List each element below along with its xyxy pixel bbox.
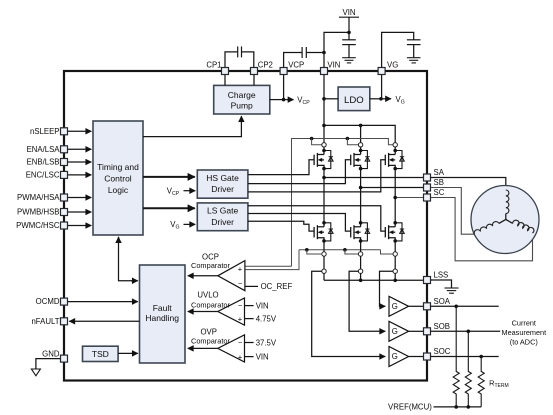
svg-text:+: + [238, 315, 243, 324]
svg-text:VG: VG [387, 60, 398, 69]
svg-text:37.5V: 37.5V [256, 338, 277, 347]
svg-text:VIN: VIN [256, 301, 269, 310]
svg-text:−: − [238, 301, 243, 310]
svg-text:+: + [238, 352, 243, 361]
svg-text:OCMD: OCMD [36, 297, 60, 306]
svg-text:LDO: LDO [344, 95, 364, 106]
svg-text:Current: Current [512, 318, 536, 327]
svg-text:PWMC/HSC: PWMC/HSC [16, 221, 60, 230]
svg-text:G: G [392, 302, 398, 311]
svg-text:PWMB/HSB: PWMB/HSB [17, 208, 59, 217]
svg-text:(to ADC): (to ADC) [510, 338, 538, 347]
svg-text:4.75V: 4.75V [256, 314, 277, 323]
svg-text:VCP: VCP [288, 60, 304, 69]
svg-text:UVLO: UVLO [197, 291, 218, 300]
svg-text:VIN: VIN [343, 8, 356, 17]
svg-text:+: + [238, 265, 243, 274]
svg-text:SOC: SOC [434, 347, 451, 356]
svg-text:SB: SB [434, 178, 444, 187]
svg-text:Fault: Fault [153, 303, 173, 313]
svg-text:G: G [392, 352, 398, 361]
svg-text:PWMA/HSA: PWMA/HSA [17, 193, 60, 202]
svg-text:OVP: OVP [200, 327, 216, 336]
svg-text:VIN: VIN [256, 352, 269, 361]
svg-text:ENC/LSC: ENC/LSC [26, 171, 60, 180]
svg-text:−: − [238, 338, 243, 347]
svg-text:Charge: Charge [228, 90, 256, 100]
svg-text:SC: SC [434, 188, 445, 197]
svg-text:CP2: CP2 [258, 60, 273, 69]
svg-text:Logic: Logic [108, 185, 129, 195]
svg-text:HS Gate: HS Gate [206, 173, 239, 183]
svg-text:VREF(MCU): VREF(MCU) [388, 403, 432, 412]
svg-text:Pump: Pump [231, 101, 253, 111]
svg-text:Comparator: Comparator [191, 301, 231, 310]
svg-text:SOB: SOB [434, 322, 450, 331]
svg-text:Comparator: Comparator [191, 261, 231, 270]
svg-text:Comparator: Comparator [191, 336, 231, 345]
svg-text:Driver: Driver [211, 184, 234, 194]
svg-text:SOA: SOA [434, 297, 451, 306]
svg-text:TSD: TSD [92, 349, 109, 359]
svg-text:LSS: LSS [434, 271, 449, 280]
svg-text:ENA/LSA: ENA/LSA [27, 145, 61, 154]
svg-text:OC_REF: OC_REF [261, 282, 293, 291]
svg-text:Control: Control [104, 174, 132, 184]
svg-text:LS Gate: LS Gate [207, 206, 238, 216]
svg-text:Timing and: Timing and [97, 162, 139, 172]
svg-text:GND: GND [42, 350, 60, 359]
svg-text:Driver: Driver [211, 217, 234, 227]
svg-text:Measurement: Measurement [501, 328, 546, 337]
svg-text:nSLEEP: nSLEEP [30, 127, 59, 136]
svg-text:OCP: OCP [202, 252, 219, 261]
svg-text:G: G [392, 327, 398, 336]
svg-text:ENB/LSB: ENB/LSB [27, 158, 60, 167]
svg-text:nFAULT: nFAULT [31, 317, 59, 326]
svg-text:−: − [238, 279, 243, 288]
svg-text:CP1: CP1 [206, 60, 221, 69]
svg-text:VIN: VIN [327, 60, 340, 69]
svg-text:SA: SA [434, 168, 445, 177]
svg-text:Handling: Handling [145, 313, 179, 323]
